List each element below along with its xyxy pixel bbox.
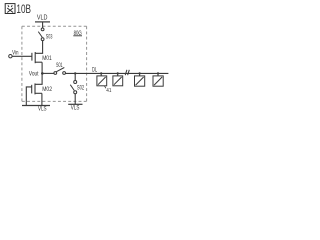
node pixel 3 tap [139,72,141,74]
ground VLS (right) [68,104,82,111]
svg-text:Vout: Vout [29,72,39,78]
figure label 図10B [5,4,15,14]
block 80G dashed boundary [22,26,87,101]
wire tap 4 [157,73,159,76]
pixel cell (box 3) [135,76,145,86]
svg-text:41: 41 [106,88,111,94]
svg-text:M01: M01 [42,55,52,62]
wire M02 source to VLS (left) [41,93,43,105]
wire junction to S02 [74,73,76,80]
wire Vin to M01 gate [12,55,32,57]
wire S02 to VLS (right) [74,94,76,105]
ground VLS (left) [22,105,50,112]
leader to label 41 [104,86,106,89]
power terminal VLD [35,15,50,22]
pixel cell (box 4) [153,76,163,86]
svg-text:10B: 10B [16,4,31,16]
wire S03 to M01 drain [35,41,42,54]
svg-text:M02: M02 [42,86,52,93]
transistor M01 [32,52,42,63]
svg-text:VLD: VLD [37,15,48,22]
wire Vout to S01 [42,72,54,74]
node Vout [41,72,44,75]
svg-text:S01: S01 [56,63,63,69]
wire tap 1 [100,73,102,76]
switch S02 [70,81,76,94]
wire S01 to data line DL [66,72,169,74]
node pixel 4 tap [157,72,159,74]
terminal Vin [9,50,19,58]
pixel cell 41 (box 1) [97,76,107,86]
svg-text:Vin: Vin [12,50,19,57]
svg-text:VLS: VLS [38,105,47,112]
wire M02 gate to VLS (left) [26,87,31,106]
node S02 junction [74,72,76,74]
pixel cell (box 2) [113,76,123,86]
node pixel 1 tap [100,72,102,74]
transistor M02 [32,83,42,94]
svg-text:DL: DL [92,67,98,73]
svg-text:S03: S03 [46,35,53,41]
svg-text:S02: S02 [77,85,85,91]
wire M01 source to Vout node to M02 drain [35,62,42,84]
switch S03 [38,28,44,41]
wire tap 3 [139,73,141,76]
label 80G [73,30,82,37]
svg-text:VLS: VLS [71,105,80,112]
node pixel 2 tap [117,72,119,74]
break marks on data line [125,70,129,75]
switch S01 [54,68,66,75]
wire tap 2 [117,73,119,76]
wire VLD bar to S03 [42,22,44,28]
